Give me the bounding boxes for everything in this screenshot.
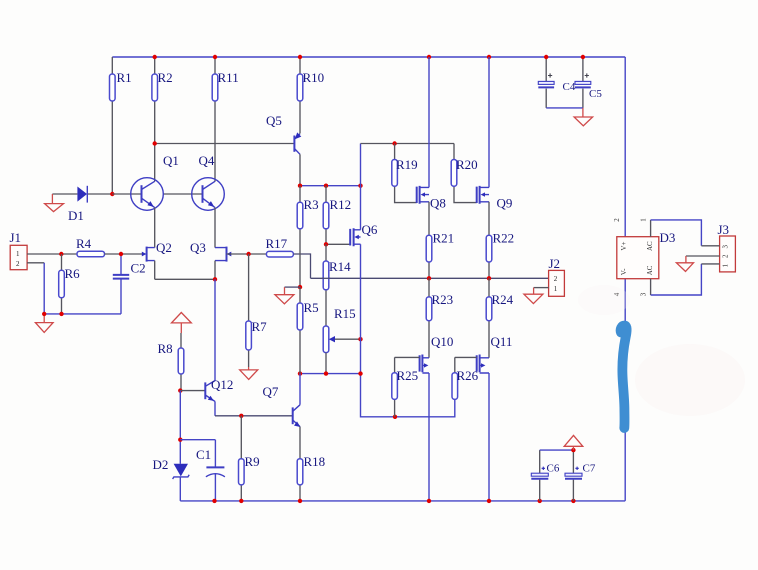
node R2 Q5 base [153, 141, 157, 145]
ground at D1 [45, 194, 64, 212]
transistor Q12 [205, 377, 233, 401]
transistor Q7 [263, 384, 301, 427]
marker scribble [617, 322, 629, 336]
node R21 R23 output [427, 276, 431, 280]
svg-text:Q6: Q6 [362, 222, 378, 237]
bridge rectifier D3 [613, 218, 675, 297]
resistor R25 [392, 357, 420, 416]
ground at J1 [35, 314, 53, 332]
transistor Q8 MOSFET [417, 186, 446, 211]
wire D3 pin1 to J3 pin3 [650, 220, 652, 237]
svg-text:R25: R25 [397, 368, 419, 383]
resistor R7 [246, 254, 267, 367]
svg-text:R21: R21 [433, 231, 455, 246]
connector J1 [10, 230, 28, 270]
node R22 R24 output [487, 276, 491, 280]
node R15 wiper x360 [358, 337, 362, 341]
svg-text:C4: C4 [563, 81, 576, 93]
svg-text:AC: AC [646, 241, 654, 251]
faint smudge right [635, 344, 745, 416]
capacitor C4 [538, 57, 576, 108]
ground at J3 pin2 [676, 256, 693, 271]
transistor Q1 [131, 153, 179, 210]
svg-text:R19: R19 [396, 157, 418, 172]
resistor R10 [297, 57, 324, 134]
svg-text:R22: R22 [493, 231, 515, 246]
node R9 top [239, 414, 243, 418]
svg-text:Q10: Q10 [431, 334, 453, 349]
svg-text:C6: C6 [547, 463, 560, 475]
node J1 ground [42, 312, 46, 316]
wire bottom left ground bus [44, 313, 121, 315]
resistor R11 [212, 57, 239, 182]
connector J3 [718, 222, 736, 272]
wire Q1 base [112, 193, 141, 195]
ground stub at R3 R5 node [275, 287, 300, 304]
wire Q1 emitter down [154, 208, 156, 248]
bottom rail junction dots [212, 499, 216, 503]
wire x360 upper rail [360, 144, 362, 230]
wire Q4 emitter down [214, 208, 216, 248]
svg-text:R7: R7 [252, 319, 268, 334]
transistor Q5 [155, 113, 302, 186]
node R12 top [324, 184, 328, 188]
resistor R9 [239, 416, 260, 501]
resistor R12 [323, 186, 351, 245]
svg-text:R5: R5 [304, 300, 319, 315]
wire Q10 source to bottom rail [428, 373, 430, 501]
node R25 bottom [393, 415, 397, 419]
svg-text:V+: V+ [620, 242, 628, 251]
svg-text:R4: R4 [76, 236, 92, 251]
wire right V+ column down to bridge [624, 57, 626, 237]
svg-text:2: 2 [613, 218, 621, 222]
node R4 C2 [119, 252, 123, 256]
svg-text:Q11: Q11 [491, 334, 513, 349]
resistor R8 [158, 333, 184, 391]
svg-text:3: 3 [722, 245, 730, 249]
wire J2 pin1 to ground [524, 288, 549, 304]
capacitor C1 [180, 440, 225, 501]
wire Q1 Q4 base link [163, 193, 202, 195]
svg-text:R15: R15 [334, 306, 356, 321]
resistor R18 [297, 427, 325, 501]
transistor Q10 MOSFET [420, 334, 454, 373]
resistor R17 [266, 236, 294, 257]
wire output bus to J2 [311, 277, 549, 279]
wire Q12 collector up [214, 279, 216, 380]
transistor Q2 JFET [142, 240, 172, 279]
svg-text:2: 2 [16, 260, 20, 268]
transistor Q6 MOSFET [350, 222, 378, 246]
node Q5 R3 [298, 184, 302, 188]
node R8 Q12 base [178, 388, 182, 392]
wire Q5 collector node bus [300, 185, 361, 187]
node J1 R4 R6 [59, 252, 63, 256]
wire Q7 collector up [299, 374, 301, 405]
wire J3 pin stubs [686, 246, 720, 264]
wire Q12 base [180, 390, 205, 392]
node D1 R1 Q1 base [110, 192, 114, 196]
wire Q8 drain from rail [428, 57, 430, 187]
svg-text:R6: R6 [65, 266, 81, 281]
svg-text:Q3: Q3 [190, 240, 206, 255]
resistor R22 [486, 202, 514, 278]
diode D1 [52, 186, 112, 223]
diode D2 zener [153, 457, 190, 501]
node x360 mid [358, 371, 362, 375]
svg-text:D3: D3 [660, 230, 676, 245]
wire top power rail [112, 56, 625, 58]
capacitor C2 [113, 254, 146, 314]
svg-text:R3: R3 [304, 197, 319, 212]
svg-text:C2: C2 [131, 261, 146, 276]
resistor R20 [451, 144, 477, 203]
svg-text:C5: C5 [589, 88, 602, 100]
transistor Q11 MOSFET [477, 334, 513, 373]
svg-text:J2: J2 [549, 256, 561, 271]
svg-text:R10: R10 [303, 70, 325, 85]
node R12 R14 Q6 [324, 242, 328, 246]
svg-text:V-: V- [620, 268, 628, 275]
svg-text:R11: R11 [218, 70, 239, 85]
svg-text:R1: R1 [117, 70, 132, 85]
wire Q2 Q3 source join [155, 278, 215, 280]
svg-text:Q8: Q8 [430, 196, 446, 211]
resistor R15 potentiometer [323, 306, 360, 374]
svg-text:R2: R2 [158, 70, 173, 85]
svg-text:R26: R26 [457, 368, 479, 383]
svg-text:Q4: Q4 [199, 153, 215, 168]
svg-text:Q1: Q1 [163, 153, 179, 168]
node R6 bottom [59, 312, 63, 316]
node R15 bottom [324, 371, 328, 375]
svg-text:R8: R8 [158, 341, 173, 356]
svg-text:C1: C1 [196, 447, 211, 462]
wire R17 to output corner [293, 254, 310, 278]
resistor R2 [152, 57, 173, 182]
svg-text:Q2: Q2 [156, 240, 172, 255]
svg-text:AC: AC [646, 265, 654, 275]
svg-text:2: 2 [554, 275, 558, 283]
svg-text:J3: J3 [718, 222, 730, 237]
node R3 R5 ground [298, 285, 302, 289]
capacitor C7 [565, 450, 596, 501]
connector J2 [549, 256, 565, 296]
node R19 top [392, 141, 396, 145]
svg-text:R14: R14 [329, 259, 351, 274]
wire D3 pin3 to J3 pin1 [650, 279, 652, 295]
wire R4 to Q2 gate [105, 253, 143, 255]
svg-text:Q5: Q5 [266, 113, 282, 128]
svg-text:R23: R23 [432, 292, 454, 307]
node C7 ground [571, 448, 575, 452]
junction dots on top rail [153, 55, 157, 59]
resistor R24 [486, 278, 513, 358]
ground below R7 [240, 367, 258, 379]
svg-text:D2: D2 [153, 457, 169, 472]
resistor R5 [297, 287, 318, 374]
svg-text:J1: J1 [10, 230, 22, 245]
wire R19 R20 feed [361, 143, 455, 145]
power up symbol above C6 C7 [564, 435, 583, 450]
wire R12 R14 to Q6 gate [326, 243, 350, 245]
resistor R21 [426, 202, 454, 278]
resistor R3 [297, 186, 318, 287]
resistor R1 [110, 57, 132, 194]
svg-text:1: 1 [722, 264, 730, 268]
capacitor C5 [575, 57, 602, 108]
transistor Q9 MOSFET [477, 186, 513, 211]
wire C4 C5 bottom join [546, 107, 583, 109]
resistor R26 [452, 357, 479, 399]
svg-text:D1: D1 [68, 208, 84, 223]
svg-text:R12: R12 [330, 197, 352, 212]
svg-text:R9: R9 [245, 454, 260, 469]
svg-text:Q9: Q9 [497, 196, 513, 211]
svg-text:1: 1 [554, 285, 558, 293]
node R17 R7 Q3 [246, 252, 250, 256]
wire Q3 gate node to R17 [249, 253, 267, 255]
resistor R4 [76, 236, 105, 257]
transistor Q3 JFET [190, 240, 249, 279]
node R5 Q7 x360 wire [300, 373, 361, 375]
resistor R23 [426, 278, 453, 358]
wire R8 node down to D2 [179, 391, 181, 464]
svg-text:1: 1 [16, 250, 20, 258]
svg-text:C7: C7 [583, 463, 596, 475]
node Q2 Q3 sources [213, 277, 217, 281]
node x360 rail top [358, 184, 362, 188]
svg-text:R20: R20 [456, 157, 478, 172]
power up symbol above R8 [172, 313, 192, 334]
wire C6 C7 top join [540, 449, 574, 451]
node D2 C1 [178, 438, 182, 442]
wire Q12 emitter to Q7 base [214, 401, 216, 415]
svg-text:1: 1 [639, 218, 647, 222]
ground below C4 C5 [574, 108, 593, 126]
wire bottom rail [180, 500, 625, 502]
wire J1 pin2 down [27, 262, 44, 264]
wire J1 pin1 to R4 [27, 253, 77, 255]
svg-text:R24: R24 [492, 292, 514, 307]
svg-text:2: 2 [722, 254, 730, 258]
svg-text:R18: R18 [304, 454, 326, 469]
svg-text:R17: R17 [266, 236, 288, 251]
capacitor C6 [531, 450, 560, 501]
resistor R19 [392, 144, 418, 203]
wire right V- column bridge to bottom rail [624, 279, 626, 501]
wire Q11 source to bottom rail [488, 373, 490, 501]
svg-text:Q7: Q7 [263, 384, 279, 399]
svg-text:3: 3 [639, 292, 647, 296]
wire x360 lower rail with corner to R26 [361, 244, 455, 417]
resistor R6 [59, 254, 80, 314]
transistor Q4 [192, 153, 225, 210]
resistor R14 [322, 244, 351, 326]
wire Q9 drain from rail [488, 57, 490, 187]
